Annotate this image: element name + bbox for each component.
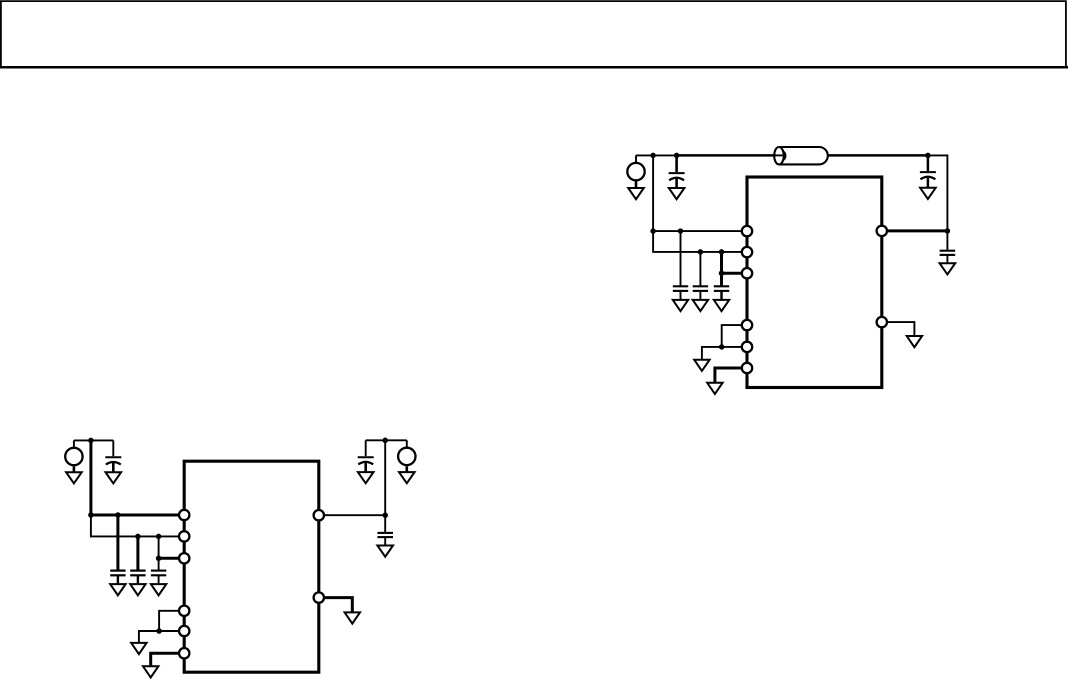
pin U2-6 — [179, 648, 189, 658]
ground under V2 — [66, 472, 82, 483]
node junction row2-cap — [135, 534, 141, 540]
ground under V3 — [399, 472, 415, 483]
wire output pin (thick) — [882, 229, 948, 232]
IC U1 body — [747, 177, 882, 388]
ground at pinB — [907, 336, 922, 347]
capacitor C10 — [151, 536, 166, 584]
wire J7 node — [366, 439, 407, 441]
ground under C11 — [377, 546, 393, 557]
capacitor C6 (output) — [940, 231, 956, 263]
pin U2-gnd — [314, 592, 324, 602]
node junction pin4/pin5 — [719, 344, 725, 350]
source V1 — [627, 155, 644, 187]
node junction J1 — [650, 153, 656, 159]
ground at pin6 — [707, 383, 722, 394]
ground at pinB — [345, 612, 360, 623]
wire pin3 (thick) — [159, 557, 185, 560]
inductor L1 (ferrite bead) — [774, 147, 828, 164]
wire row1 to pin1 (thick) — [91, 514, 184, 517]
wire V2 node — [74, 439, 113, 441]
wire VIN node top — [636, 154, 677, 156]
capacitor C7 (polarized, input bulk) — [105, 440, 121, 472]
ground under C5 — [714, 300, 729, 311]
pin U2-2 — [179, 531, 189, 541]
wire pin5 to ground — [139, 631, 184, 642]
ground under C3 — [673, 300, 688, 311]
ground at pin6 — [143, 666, 158, 677]
ground under C6 — [940, 263, 956, 274]
pin U2-3 — [179, 553, 189, 563]
ground under C12 — [358, 472, 374, 483]
wire from J3 down to output node — [928, 155, 948, 231]
node junction pin3 — [156, 556, 162, 562]
node junction row1-cap — [115, 512, 121, 518]
node junction J3 — [925, 153, 931, 159]
ground under C4 — [693, 300, 708, 311]
capacitor C11 (output) — [377, 515, 393, 545]
pin U1-4 — [742, 320, 752, 330]
ground under C2 — [920, 188, 936, 199]
wire pin4 — [159, 611, 184, 631]
capacitor C9 (thick leads) — [130, 536, 145, 584]
node junction J6 (output) — [382, 512, 388, 518]
pin U2-out — [314, 510, 324, 520]
ground under C7 — [106, 472, 122, 483]
pin U1-5 — [742, 342, 752, 352]
capacitor C1 (polarized, input bulk) — [669, 155, 685, 187]
wire pinB to ground (thick) — [319, 598, 353, 612]
wire pin4 — [722, 325, 747, 347]
capacitor C4 — [693, 252, 708, 300]
ground at pin5 — [131, 643, 146, 654]
node junction row1-cap — [678, 228, 684, 234]
node junction row2-cap2 — [719, 249, 725, 255]
ground under C9 — [130, 584, 145, 595]
node junction pin4/pin5 — [156, 628, 162, 634]
pin U1-out — [877, 226, 887, 236]
source V2 — [65, 440, 82, 472]
wire pin6 to ground (thick) — [715, 368, 747, 382]
wire row1 to pin1 — [653, 230, 747, 232]
wire output rail up — [384, 440, 386, 515]
pin U2-1 — [179, 510, 189, 520]
node junction row2-cap2 — [156, 534, 162, 540]
pin U2-4 — [179, 606, 189, 616]
ground under V1 — [628, 188, 644, 199]
node junction row1-left — [650, 228, 656, 234]
title block bottom rule — [0, 66, 1068, 69]
node junction row2-cap — [698, 249, 704, 255]
node junction row1-left — [88, 512, 94, 518]
wire pinA to output node — [319, 514, 385, 516]
wire left rail down to row2 — [91, 515, 184, 536]
capacitor C5 (thick leads) — [714, 252, 729, 300]
pin U1-6 — [742, 363, 752, 373]
IC U2 body — [184, 461, 319, 672]
wire left rail down — [653, 155, 747, 252]
capacitor C12 (polarized) — [358, 440, 374, 472]
wire pin5 to ground — [702, 347, 747, 359]
wire main top (thick) — [677, 154, 928, 157]
source V3 — [398, 440, 415, 472]
pin U1-3 — [742, 268, 752, 278]
capacitor C8 (thick leads) — [110, 515, 125, 584]
ground under C1 — [669, 188, 685, 199]
wire pinB to ground — [882, 322, 915, 335]
ground under C8 — [110, 584, 125, 595]
capacitor C3 — [673, 231, 688, 300]
wire V2 rail down (thick) — [89, 440, 92, 515]
node junction J2 — [674, 153, 680, 159]
node junction J5 — [88, 438, 94, 444]
wire pin6 to ground (thick) — [151, 653, 185, 665]
title block frame — [1, 1, 1066, 67]
capacitor C2 (polarized, right of L1) — [920, 155, 936, 187]
pin U1-1 — [742, 226, 752, 236]
node junction J7 — [382, 438, 388, 444]
wire pin3 (thick) — [722, 272, 748, 275]
node junction pin3 — [719, 270, 725, 276]
ground under C10 — [151, 584, 166, 595]
pin U1-2 — [742, 247, 752, 257]
node junction J4 (output) — [945, 228, 951, 234]
pin U2-5 — [179, 626, 189, 636]
pin U1-gnd — [877, 317, 887, 327]
ground at pin5 — [694, 360, 709, 371]
